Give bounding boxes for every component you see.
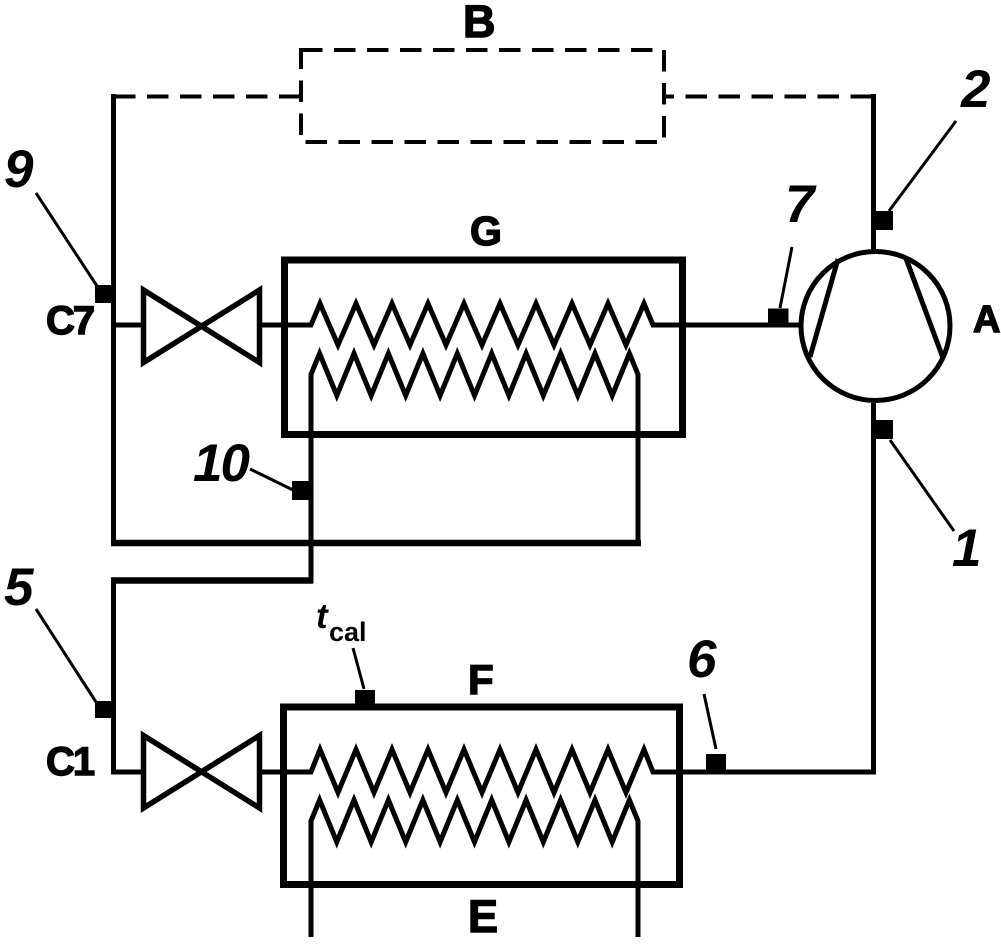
svg-text:C1: C1 <box>46 740 95 784</box>
svg-text:7: 7 <box>785 175 817 234</box>
svg-text:1: 1 <box>952 519 981 578</box>
svg-text:F: F <box>468 656 494 703</box>
svg-text:6: 6 <box>687 630 717 689</box>
svg-text:10: 10 <box>193 434 249 493</box>
svg-text:2: 2 <box>960 60 990 119</box>
svg-text:5: 5 <box>4 558 35 617</box>
svg-text:9: 9 <box>4 140 34 199</box>
svg-text:G: G <box>470 208 502 254</box>
svg-text:C7: C7 <box>46 299 94 343</box>
svg-text:cal: cal <box>329 617 367 647</box>
svg-text:t: t <box>316 597 329 636</box>
svg-text:A: A <box>973 299 1000 341</box>
svg-text:B: B <box>463 0 496 47</box>
svg-text:E: E <box>468 891 498 942</box>
